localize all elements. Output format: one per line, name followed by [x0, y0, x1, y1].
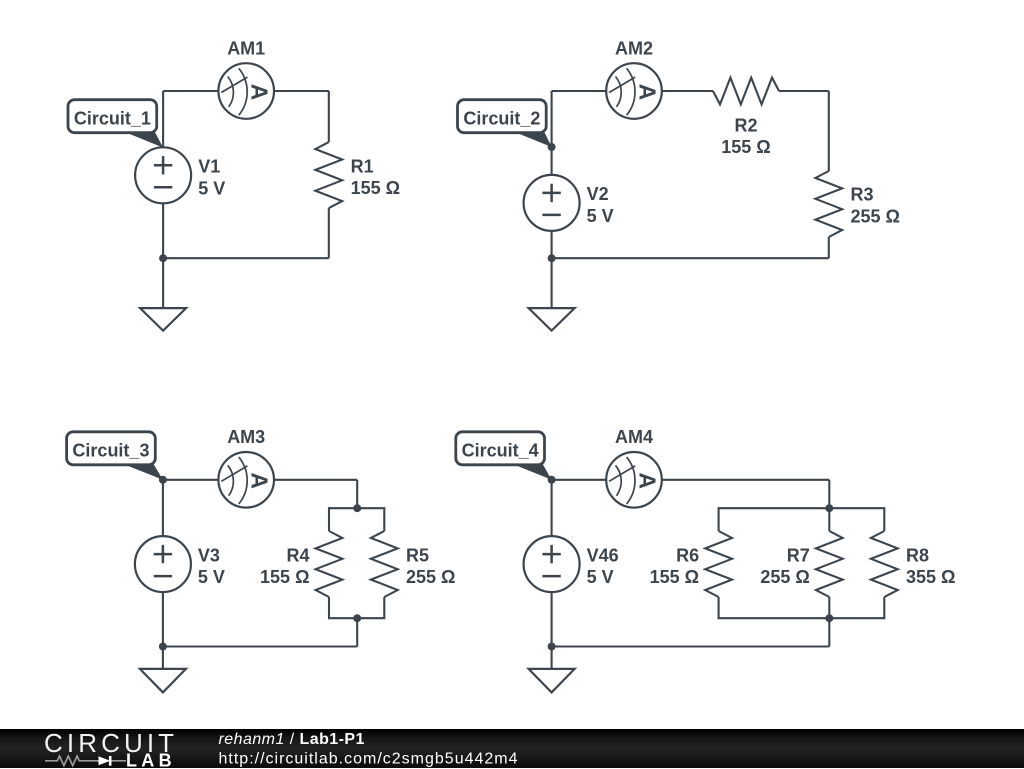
wire: C3 parallel top rail to R4/R5 tops [329, 508, 384, 531]
junction C3 ground node [159, 643, 167, 651]
wire: C3 bottom return wire [163, 645, 357, 647]
wire: C2 left vertical, corner down to V2 + [551, 91, 553, 175]
junction C1 ground node [159, 254, 167, 262]
wire: C1 bottom return wire [163, 257, 329, 259]
resistor R2 [713, 78, 779, 105]
resistor R4 [316, 531, 343, 597]
junction C4 parallel top node [825, 504, 833, 512]
wire: C1 top-left corner to AM1 left terminal [163, 90, 218, 92]
svg-text:R2: R2 [734, 115, 757, 135]
svg-text:http://circuitlab.com/c2smgb5u: http://circuitlab.com/c2smgb5u442m4 [219, 750, 519, 767]
svg-text:LAB: LAB [126, 750, 176, 768]
svg-text:155 Ω: 155 Ω [260, 567, 309, 587]
junction C3 parallel top node [353, 504, 361, 512]
svg-text:AM2: AM2 [615, 38, 653, 58]
wire: C1 left vertical, top corner down to V1 + [162, 91, 164, 147]
svg-text:155 Ω: 155 Ω [721, 137, 770, 157]
wire: C2 R2 right lead to top-right corner [779, 90, 829, 92]
svg-text:AM4: AM4 [615, 427, 653, 447]
svg-text:R4: R4 [286, 545, 309, 565]
ground (circuit 3) [140, 647, 186, 693]
wire: C2 AM2 right terminal to R2 left lead [662, 90, 713, 92]
svg-text:rehanm1 / Lab1-P1: rehanm1 / Lab1-P1 [219, 731, 365, 748]
wire: C2 bottom return wire [552, 257, 829, 259]
wire: C4 R7 bottom to parallel bottom rail [828, 597, 830, 618]
wire: C4 parallel bottom node down to bottom wire [828, 618, 830, 646]
voltage source V2 [524, 175, 580, 231]
junction C2 ground node [548, 254, 556, 262]
junction C4 node at flag attachment [548, 476, 556, 484]
logo diode symbol [99, 756, 111, 765]
CircuitLab footer bar [0, 729, 1024, 768]
svg-text:V2: V2 [587, 184, 609, 204]
wire: C4 down to parallel top node [828, 480, 830, 508]
wire: C4 bottom return wire [552, 645, 830, 647]
wire: C1 V1 - down to ground node [162, 203, 164, 258]
wire: C3 R4/R5 bottoms to parallel bottom rail [329, 597, 384, 618]
wire: C4 flag node to AM4 left terminal [552, 479, 607, 481]
node flag Circuit_3 (callout label) [67, 432, 163, 480]
wire: C2 top-left corner to AM2 left terminal [552, 90, 607, 92]
svg-text:V1: V1 [198, 157, 220, 177]
wire: C3 parallel bottom node down to bottom wire [356, 618, 358, 646]
wire: C3 down to parallel pair top node [356, 480, 358, 508]
wire: C3 flag node to AM3 left terminal [163, 479, 219, 481]
wire: C1 R1 bottom down to bottom wire [328, 208, 330, 258]
wire: C2 right vertical down to R3 top [828, 91, 830, 171]
junction C4 parallel bottom node [825, 614, 833, 622]
svg-text:AM1: AM1 [227, 38, 265, 58]
voltage source V3 [135, 536, 191, 592]
svg-text:V3: V3 [198, 545, 220, 565]
voltage source V46 [524, 536, 580, 592]
node flag Circuit_1 (callout label) [68, 100, 163, 148]
ammeter AM1 [218, 63, 274, 119]
svg-text:R3: R3 [851, 185, 874, 205]
ground (circuit 4) [529, 647, 575, 693]
ground (circuit 2) [529, 258, 575, 330]
wire: C4 AM4 right terminal to top-right corner [662, 479, 830, 481]
resistor R3 [815, 171, 842, 237]
wire: C4 V46 - down to ground node [551, 592, 553, 646]
svg-text:Circuit_1: Circuit_1 [74, 108, 151, 128]
resistor R5 [371, 531, 398, 597]
wire: C2 R3 bottom down to bottom wire [828, 237, 830, 258]
svg-text:R7: R7 [787, 545, 810, 565]
junction C4 ground node [548, 643, 556, 651]
resistor R1 [315, 142, 342, 208]
ammeter AM4 [606, 452, 662, 508]
ammeter AM2 [606, 63, 662, 119]
ground (circuit 1) [140, 258, 186, 330]
resistor R8 [871, 531, 898, 597]
node flag Circuit_4 (callout label) [456, 432, 552, 480]
wire: C1 right vertical down to R1 top [328, 91, 330, 142]
wire: C4 parallel top rail to R6/R8 tops [719, 508, 885, 531]
resistor R7 [816, 531, 843, 597]
svg-text:R1: R1 [351, 156, 374, 176]
voltage source V1 [135, 147, 191, 203]
svg-text:R5: R5 [406, 545, 429, 565]
wire: C4 left vertical, flag node down to V46 + [551, 480, 553, 536]
wire: C3 V3 - down to ground node [162, 592, 164, 646]
svg-text:255 Ω: 255 Ω [760, 567, 809, 587]
svg-text:5 V: 5 V [198, 178, 225, 198]
wire: C4 parallel top node down to R7 top [828, 508, 830, 531]
wire: C4 R6/R8 bottoms to parallel bottom rail [719, 597, 885, 618]
svg-text:155 Ω: 155 Ω [351, 178, 400, 198]
svg-text:255 Ω: 255 Ω [851, 206, 900, 226]
wire: C2 V2 - down to ground node [551, 231, 553, 258]
svg-text:255 Ω: 255 Ω [406, 567, 455, 587]
wire: C1 AM1 right terminal to top-right corner [274, 90, 329, 92]
svg-text:5 V: 5 V [587, 206, 614, 226]
wire: C3 left vertical, flag node down to V3 + [162, 480, 164, 536]
CircuitLab logo schematic glyph (resistor + diode) [45, 756, 126, 766]
svg-text:5 V: 5 V [587, 567, 614, 587]
svg-text:155 Ω: 155 Ω [650, 567, 699, 587]
svg-text:R8: R8 [906, 545, 929, 565]
svg-text:R6: R6 [676, 545, 699, 565]
svg-text:355 Ω: 355 Ω [906, 567, 955, 587]
svg-text:Circuit_4: Circuit_4 [462, 440, 539, 460]
junction C3 node at flag attachment [159, 476, 167, 484]
svg-text:Circuit_3: Circuit_3 [72, 440, 149, 460]
junction C3 parallel bottom node [353, 614, 361, 622]
svg-text:Circuit_2: Circuit_2 [463, 108, 540, 128]
wire: C3 AM3 right terminal to top-right corner [274, 479, 357, 481]
resistor R6 [705, 531, 732, 597]
node flag Circuit_2 (callout label) [458, 100, 552, 147]
junction C2 node at flag attachment [548, 143, 556, 151]
ammeter AM3 [218, 452, 274, 508]
svg-text:V46: V46 [587, 545, 619, 565]
svg-text:AM3: AM3 [227, 427, 265, 447]
svg-text:5 V: 5 V [198, 567, 225, 587]
